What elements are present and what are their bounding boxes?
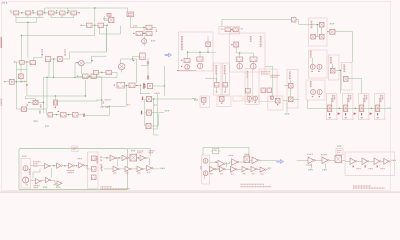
net GND xyxy=(322,169,326,171)
relay K17 xyxy=(93,70,98,74)
connector label xyxy=(96,156,98,164)
wire xyxy=(247,93,249,97)
wire xyxy=(27,95,86,97)
junction xyxy=(94,7,95,8)
wire xyxy=(69,52,71,59)
pin label xyxy=(318,71,319,72)
relay K18 xyxy=(106,71,112,75)
wire xyxy=(16,17,44,19)
buffer A7 xyxy=(57,181,62,186)
pin label xyxy=(4,81,5,82)
jack JK3 xyxy=(91,175,96,180)
wire xyxy=(221,20,223,27)
wire xyxy=(43,77,45,113)
LED D2 xyxy=(185,64,190,69)
pin label xyxy=(144,84,145,85)
capacitor C16 xyxy=(61,113,67,118)
wire xyxy=(21,34,95,36)
op-amp A11 xyxy=(308,157,315,164)
wire xyxy=(67,8,69,13)
pin label xyxy=(68,10,69,11)
pin label xyxy=(221,103,222,104)
regulator outline xyxy=(245,69,253,102)
channel CH2 name xyxy=(348,95,350,103)
channel CH4 ref xyxy=(382,95,384,100)
junction xyxy=(153,98,154,99)
caption line 2 xyxy=(100,188,130,190)
junction xyxy=(32,12,33,13)
cathode mark xyxy=(147,61,148,64)
channel CH3 ref xyxy=(366,95,368,100)
relay K19 xyxy=(184,58,190,62)
net flag xyxy=(147,76,148,80)
wire xyxy=(20,35,22,60)
diode D1 xyxy=(142,39,147,44)
pin label xyxy=(377,165,378,167)
polarity mark xyxy=(143,83,144,89)
wire xyxy=(62,165,69,167)
net arrow xyxy=(338,112,341,115)
net label xyxy=(78,158,83,160)
input label 2 xyxy=(33,163,38,165)
wire xyxy=(339,70,341,93)
R41 label xyxy=(368,168,373,170)
wire xyxy=(74,63,76,77)
module U10 outline xyxy=(179,32,214,71)
wire xyxy=(272,66,274,96)
junction xyxy=(53,77,54,78)
wire xyxy=(188,51,216,53)
wire xyxy=(33,58,35,61)
wire xyxy=(202,147,204,155)
connector pin xyxy=(203,158,208,163)
gain label xyxy=(67,170,75,172)
varistor RV1 xyxy=(311,34,316,39)
junction xyxy=(76,165,77,166)
B10 label xyxy=(231,173,234,175)
sense block outline xyxy=(342,62,352,90)
inverter A3 xyxy=(69,163,75,168)
net PWR xyxy=(337,145,342,147)
net label xyxy=(268,167,272,169)
wire xyxy=(102,105,126,107)
A11 label xyxy=(307,153,313,155)
module U10 name xyxy=(181,36,183,51)
junction xyxy=(64,165,65,166)
net PWR xyxy=(330,23,334,25)
wire xyxy=(66,114,73,116)
net GND xyxy=(34,120,38,122)
pin label xyxy=(231,44,232,45)
wire xyxy=(309,24,320,26)
junction xyxy=(53,58,54,59)
spare outline xyxy=(233,96,243,101)
junction xyxy=(199,51,200,52)
inverter B3 xyxy=(140,155,146,160)
net GND xyxy=(151,40,156,42)
pin label xyxy=(133,60,134,61)
pin label xyxy=(100,157,101,158)
wire xyxy=(36,18,38,23)
wire xyxy=(139,85,141,94)
op-amp A6 xyxy=(45,177,51,182)
pin label xyxy=(329,117,330,118)
pin text xyxy=(271,74,280,76)
module U11 text xyxy=(260,36,262,47)
wire xyxy=(104,168,113,170)
label xyxy=(154,104,157,106)
transistor Q1 xyxy=(9,79,14,84)
wire xyxy=(204,176,206,179)
caption line 1 xyxy=(353,185,371,187)
relay K16 xyxy=(91,74,96,78)
wire xyxy=(27,22,29,57)
net CLK2 xyxy=(245,153,249,155)
LED D8 xyxy=(310,64,315,69)
op-amp A5 xyxy=(35,178,41,184)
wire xyxy=(209,162,218,164)
power box text xyxy=(73,147,77,149)
cap block outline xyxy=(217,96,231,107)
pin label xyxy=(100,168,101,169)
pin label xyxy=(327,31,328,32)
output channel CH4 outline xyxy=(374,94,385,120)
power box text xyxy=(337,149,341,151)
pin label xyxy=(377,113,378,115)
pin label xyxy=(32,10,33,11)
B11 label xyxy=(243,173,246,175)
net name v xyxy=(102,101,104,104)
wire xyxy=(148,158,150,165)
wire xyxy=(332,64,334,68)
pin label xyxy=(345,117,346,118)
connector J2 outline xyxy=(21,158,31,188)
net GND xyxy=(285,113,290,115)
junction xyxy=(89,75,90,76)
A11 label 2 xyxy=(307,164,312,166)
wire xyxy=(120,26,122,35)
LED D5 xyxy=(251,63,257,69)
junction xyxy=(126,85,127,86)
signal arrow xyxy=(165,53,171,57)
capacitor C7 xyxy=(107,14,111,17)
wire xyxy=(131,168,137,170)
pin label xyxy=(377,117,378,118)
relay K21 xyxy=(291,18,296,23)
junction xyxy=(101,72,102,73)
wire xyxy=(46,109,48,115)
pin label xyxy=(14,61,15,62)
wire xyxy=(145,112,147,114)
wire xyxy=(61,15,63,18)
label R9 xyxy=(133,25,137,27)
relay K8 xyxy=(98,23,104,27)
wire xyxy=(78,114,83,116)
DCDC name 2 xyxy=(261,73,270,75)
pin label xyxy=(224,91,225,92)
wire xyxy=(321,27,323,34)
junction xyxy=(67,12,68,13)
cap block outline xyxy=(200,96,209,107)
junction xyxy=(55,95,56,96)
wire xyxy=(82,24,87,26)
wire xyxy=(16,62,18,109)
IC U3 xyxy=(127,12,134,17)
inverter B8 xyxy=(209,166,215,171)
pin text xyxy=(271,76,278,78)
junction xyxy=(187,51,188,52)
wire xyxy=(286,101,288,113)
wire xyxy=(216,87,218,91)
wire xyxy=(154,134,159,136)
crystal Y3 xyxy=(335,156,342,163)
wire xyxy=(90,56,92,63)
wire xyxy=(315,36,319,38)
net 3V3 xyxy=(192,98,196,100)
driver IC U21 xyxy=(344,105,348,112)
pin label xyxy=(144,87,145,88)
wire xyxy=(143,36,145,39)
caption line 1 xyxy=(100,186,112,188)
wire xyxy=(225,163,229,165)
wire xyxy=(29,102,33,104)
junction xyxy=(68,114,69,115)
output channel CH3 outline xyxy=(358,94,369,120)
junction xyxy=(16,81,17,82)
junction xyxy=(370,108,371,109)
junction xyxy=(53,165,54,166)
wire xyxy=(41,55,43,58)
B13 label xyxy=(261,173,264,175)
pin label xyxy=(215,161,216,162)
wire xyxy=(103,16,105,20)
wire xyxy=(157,114,159,126)
label xyxy=(54,184,56,186)
label U2 xyxy=(103,18,107,20)
A12 label xyxy=(321,154,327,156)
wire xyxy=(25,96,27,99)
wire xyxy=(153,99,155,135)
wire xyxy=(298,20,300,25)
relay K25 xyxy=(223,82,227,87)
driver block outline xyxy=(222,63,229,95)
LED D10 xyxy=(311,89,316,94)
crystal Y2 xyxy=(244,156,250,163)
wire xyxy=(290,80,292,84)
relay K20 xyxy=(197,57,203,61)
wire xyxy=(41,179,45,181)
wire xyxy=(239,61,241,63)
power box outline xyxy=(212,148,218,153)
wire xyxy=(336,69,342,71)
R40 label xyxy=(356,168,361,170)
wire xyxy=(345,160,350,162)
relay K9 xyxy=(146,25,152,30)
net arrow xyxy=(354,112,357,115)
connector label xyxy=(29,169,31,175)
junction xyxy=(354,108,355,109)
wire xyxy=(237,168,242,170)
relay K10 xyxy=(146,31,152,35)
pin label xyxy=(78,12,79,13)
U19 label xyxy=(27,104,29,106)
wire xyxy=(33,171,40,173)
wire xyxy=(147,58,149,66)
junction xyxy=(140,85,141,86)
op-amp A9 xyxy=(232,159,239,166)
A8 label xyxy=(215,168,221,170)
wire xyxy=(53,59,55,77)
channel CH3 name xyxy=(364,95,366,103)
wire xyxy=(112,71,117,73)
wire xyxy=(352,32,354,62)
wire xyxy=(153,128,158,130)
module edge line xyxy=(178,70,196,72)
wire xyxy=(224,87,226,91)
wire xyxy=(51,58,58,60)
wire xyxy=(307,107,387,109)
wire xyxy=(58,100,99,102)
wire xyxy=(207,47,209,53)
wire xyxy=(257,168,260,170)
junction xyxy=(106,157,107,158)
wire xyxy=(149,149,151,156)
wire xyxy=(329,159,335,161)
lamp LP1 xyxy=(79,61,85,66)
IC U4 xyxy=(18,74,23,79)
wire xyxy=(135,84,140,86)
pin label xyxy=(114,85,115,86)
wire xyxy=(39,15,41,18)
connector J4 outline xyxy=(202,155,210,184)
wire xyxy=(106,28,108,52)
net name xyxy=(105,106,109,108)
capacitor C13 xyxy=(219,96,224,101)
junction xyxy=(231,29,232,30)
wire xyxy=(164,66,166,96)
wire xyxy=(52,114,60,116)
pin label xyxy=(39,112,40,113)
net label xyxy=(41,49,43,54)
capacitor C11 xyxy=(267,88,272,93)
junction xyxy=(164,85,165,86)
junction xyxy=(56,12,57,13)
input label xyxy=(33,161,40,163)
wire xyxy=(47,114,49,116)
junction xyxy=(317,24,318,25)
pin label xyxy=(26,184,29,186)
op-amp A8 xyxy=(218,160,225,167)
sense name xyxy=(343,64,345,72)
wire xyxy=(152,26,157,28)
wire xyxy=(145,98,147,100)
wire xyxy=(27,15,29,18)
wire xyxy=(70,51,107,53)
pin label xyxy=(10,11,11,12)
relay module name xyxy=(310,51,312,58)
label xyxy=(40,104,42,108)
filter bank outline xyxy=(345,152,395,175)
relay K7 xyxy=(87,23,93,27)
IC U19 xyxy=(33,101,38,105)
gain label 2 xyxy=(68,172,74,174)
wire xyxy=(91,55,106,57)
pin label xyxy=(101,166,102,167)
optocoupler OK4 xyxy=(49,11,54,15)
wire xyxy=(216,79,218,83)
net GND xyxy=(165,110,169,112)
pin label xyxy=(177,70,178,71)
module U11 outline xyxy=(230,33,265,72)
net AGND xyxy=(56,186,61,188)
IC U11 xyxy=(234,42,239,47)
wire xyxy=(99,33,120,35)
wire xyxy=(152,168,159,170)
wire xyxy=(87,168,91,170)
U3 text a xyxy=(128,12,132,14)
pin label xyxy=(92,60,93,61)
sense block outline xyxy=(329,55,340,80)
wire xyxy=(48,62,50,78)
wire xyxy=(296,19,299,21)
wire xyxy=(125,84,129,86)
wire xyxy=(46,77,48,109)
inverter B17 xyxy=(384,158,390,164)
channel CH1 name xyxy=(332,95,334,103)
A9 label xyxy=(229,154,234,156)
wire xyxy=(137,157,140,159)
C21 label xyxy=(126,172,129,174)
A5 label 2 xyxy=(34,187,38,189)
polarity xyxy=(142,97,143,100)
wire xyxy=(147,66,149,80)
IC U18 xyxy=(22,107,27,112)
net name xyxy=(101,106,104,108)
signal arrow xyxy=(277,160,284,164)
inverter B16 xyxy=(374,158,381,165)
pin label xyxy=(136,85,137,86)
output channel CH1 outline xyxy=(326,94,337,120)
wire xyxy=(362,98,364,105)
net GND xyxy=(388,107,392,109)
title note xyxy=(2,2,4,4)
wire xyxy=(17,69,27,71)
wire xyxy=(106,25,108,52)
wire xyxy=(104,24,108,26)
pin label xyxy=(81,25,82,26)
DCDC name xyxy=(261,71,271,73)
IC U2 xyxy=(109,18,114,23)
IC U6 xyxy=(57,57,62,62)
capacitor C8 xyxy=(117,82,125,88)
supervisor name xyxy=(289,72,291,80)
pin label xyxy=(76,62,77,63)
wire xyxy=(51,17,73,19)
junction xyxy=(338,108,339,109)
wire xyxy=(125,85,127,106)
button S1 xyxy=(270,96,273,99)
wire xyxy=(187,52,189,58)
wire xyxy=(330,98,332,105)
J1 label xyxy=(221,28,224,30)
label xyxy=(149,150,155,152)
net name xyxy=(105,99,112,101)
wire xyxy=(141,65,148,67)
wire xyxy=(34,57,42,59)
title note 2 xyxy=(6,2,8,4)
wire xyxy=(239,53,241,57)
junction xyxy=(56,114,57,115)
